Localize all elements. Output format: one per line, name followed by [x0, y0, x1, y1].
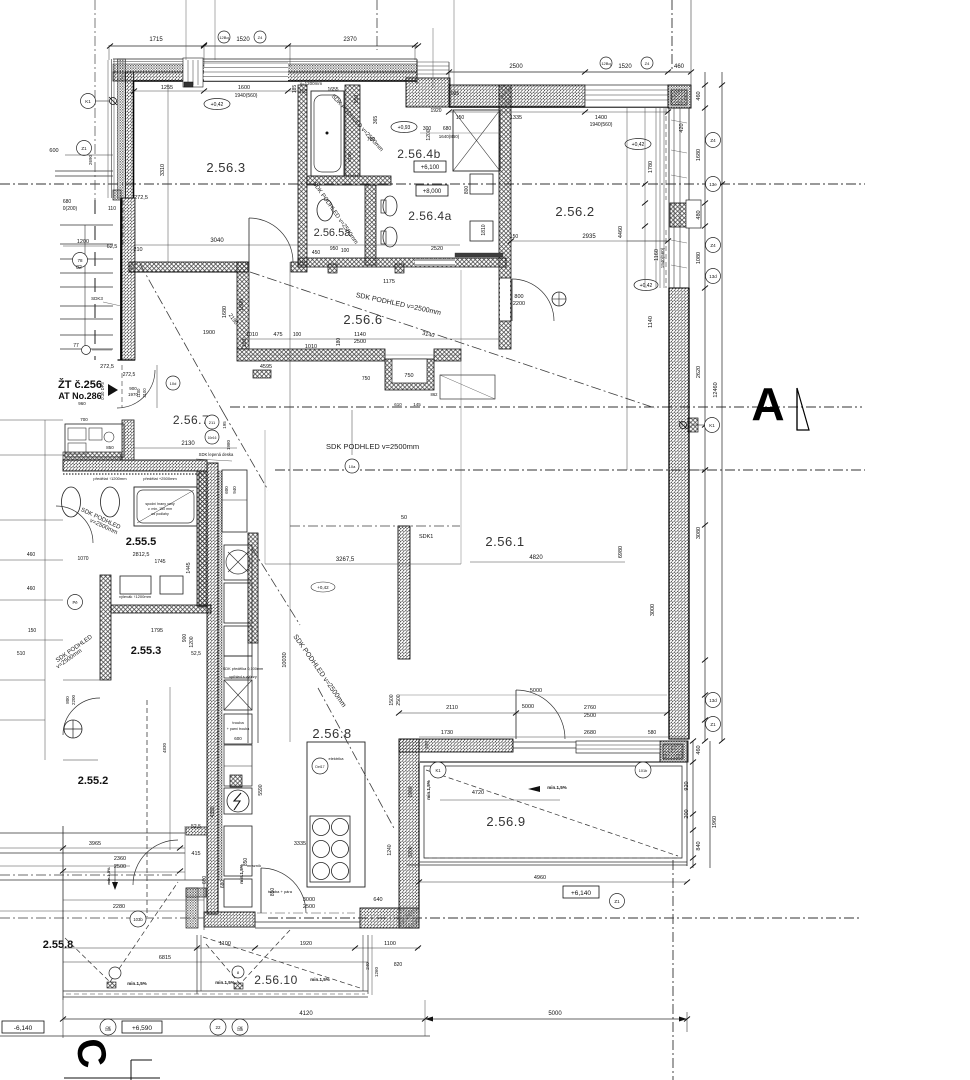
svg-text:2.56.9: 2.56.9 [486, 814, 525, 829]
left exterior wall lower part [122, 198, 135, 360]
svg-text:1010: 1010 [305, 344, 317, 350]
svg-text:#100: #100 [347, 151, 352, 162]
small hatch square 2 [395, 264, 404, 273]
terrace 2.56.10 outline [196, 935, 198, 994]
svg-text:2100: 2100 [142, 388, 147, 398]
top dimension line [109, 45, 418, 47]
svg-text:SDK3: SDK3 [91, 296, 103, 301]
svg-text:K1: K1 [709, 423, 715, 428]
kitchen mid hatch square [230, 775, 242, 787]
svg-text:610: 610 [394, 402, 402, 407]
terrace top wall window band [576, 741, 660, 753]
svg-text:22: 22 [215, 1025, 221, 1030]
svg-text:3965: 3965 [89, 841, 101, 847]
washbasin 2.55.5 no2 [101, 487, 120, 517]
living room vertical dim [626, 107, 628, 470]
svg-text:ŽT č.256: ŽT č.256 [58, 378, 102, 391]
svg-text:10e16: 10e16 [208, 436, 217, 440]
svg-text:min.1,5%: min.1,5% [106, 867, 111, 885]
axis line vertical x95 top [94, 0, 96, 200]
svg-text:0(200): 0(200) [63, 206, 78, 212]
svg-text:460: 460 [27, 552, 36, 558]
terrace 2.55.8 dashed diagonals [65, 938, 110, 982]
svg-text:50: 50 [401, 515, 407, 521]
svg-text:3000: 3000 [650, 604, 656, 616]
svg-text:1520: 1520 [236, 37, 250, 43]
right wall glazing upper [668, 108, 670, 288]
svg-text:200: 200 [684, 809, 690, 818]
stair treads [55, 170, 113, 172]
svg-text:2110: 2110 [446, 705, 458, 711]
door entry 2.56.7 [117, 370, 155, 408]
svg-text:900: 900 [182, 634, 188, 643]
svg-text:5000: 5000 [522, 704, 534, 710]
kitchen oven [224, 714, 252, 744]
window top right [585, 85, 668, 107]
svg-text:1900: 1900 [203, 330, 215, 336]
svg-text:950: 950 [330, 246, 339, 252]
svg-text:od podlahy: od podlahy [151, 512, 169, 516]
svg-text:101b: 101b [639, 769, 647, 773]
2.56.1 right dim ticks [702, 468, 708, 473]
svg-text:1140: 1140 [648, 316, 654, 328]
ceiling diagonal 2.56.7 [140, 264, 223, 412]
terrace 2.56.10 right dims [371, 935, 373, 995]
svg-text:1070: 1070 [77, 556, 88, 562]
kitchen corridor vertical dim [289, 262, 291, 742]
oval +0,42 top right [625, 139, 651, 150]
svg-text:trouba: trouba [232, 720, 244, 725]
svg-text:3267,5: 3267,5 [336, 557, 355, 563]
svg-text:100: 100 [293, 332, 302, 338]
svg-text:480: 480 [696, 210, 702, 219]
bathroom mid wall [345, 85, 360, 176]
sliding door opening bathroom [415, 259, 455, 266]
hatch pier right wall mid block [688, 418, 698, 432]
svg-text:Z4: Z4 [710, 243, 716, 248]
svg-text:680: 680 [63, 199, 72, 205]
svg-text:2500: 2500 [354, 339, 366, 345]
svg-text:272,5: 272,5 [123, 372, 136, 378]
right dimension chain inner [704, 72, 706, 741]
svg-text:6815: 6815 [159, 955, 171, 961]
svg-text:1240: 1240 [387, 844, 393, 855]
wall 2.55.3 top band [111, 605, 211, 613]
svg-text:Z1: Z1 [614, 899, 620, 904]
svg-text:0.30 DP3: 0.30 DP3 [100, 382, 105, 400]
svg-text:180: 180 [336, 338, 342, 347]
door hall to living room 2.56.1 [512, 279, 554, 321]
svg-text:2680: 2680 [584, 730, 596, 736]
svg-text:K1: K1 [435, 768, 441, 773]
svg-text:2500: 2500 [114, 864, 126, 870]
wall below room 2.56.3 [129, 262, 248, 272]
niche below hall [385, 359, 434, 390]
wall left of hall 2.56.6 [237, 262, 249, 349]
svg-text:předělat +2500mm: předělat +2500mm [143, 476, 177, 481]
svg-text:950: 950 [354, 95, 360, 104]
svg-text:SDK PODHLED v=2500mm: SDK PODHLED v=2500mm [326, 442, 419, 451]
svg-text:1940(560): 1940(560) [590, 122, 613, 128]
svg-text:1980: 1980 [226, 439, 231, 450]
bath top dims row [420, 132, 500, 134]
dim 2130 corridor [134, 447, 237, 449]
svg-text:+0,42: +0,42 [640, 283, 653, 289]
svg-text:SDK1: SDK1 [419, 534, 433, 540]
svg-text:4820: 4820 [529, 555, 543, 561]
svg-text:1745: 1745 [154, 559, 165, 565]
svg-text:A: A [751, 378, 784, 430]
axis vertical x147 bottom-left [146, 700, 148, 917]
glazing marks right wall [671, 120, 687, 123]
svg-text:460: 460 [27, 586, 36, 592]
svg-text:+6,590: +6,590 [132, 1025, 152, 1032]
door 2.56.3 to hall [249, 218, 293, 262]
svg-text:spodní hrany vaný: spodní hrany vaný [145, 502, 175, 506]
dim 4830 vertical [169, 687, 171, 850]
svg-text:2.55.3: 2.55.3 [131, 645, 162, 657]
K1 circle right wall [705, 418, 720, 433]
bathroom block left wall [298, 85, 307, 265]
svg-text:1960: 1960 [408, 786, 414, 797]
2.56.7 door lines [121, 365, 123, 408]
svg-text:min.1,5%: min.1,5% [310, 977, 330, 982]
svg-text:960: 960 [78, 401, 86, 406]
svg-text:3000: 3000 [303, 897, 315, 903]
svg-text:850: 850 [270, 888, 276, 897]
right wall inner dim chain [644, 107, 646, 288]
kitchen boxes mid [224, 583, 252, 623]
svg-text:1680: 1680 [222, 306, 228, 318]
svg-text:min.1,5%: min.1,5% [127, 981, 147, 986]
svg-text:1940(560): 1940(560) [235, 93, 258, 99]
washbasin 2.56.5a [317, 199, 333, 221]
svg-text:460: 460 [674, 64, 685, 70]
svg-text:3040: 3040 [210, 238, 224, 244]
wall stub above 2.55 band [122, 420, 134, 460]
axis vertical x672 top [671, 0, 673, 72]
right wall pier [670, 203, 688, 227]
door kitchen to terrace 2.56.10 [261, 868, 306, 913]
svg-text:1445: 1445 [186, 562, 192, 573]
svg-text:2.56.1: 2.56.1 [485, 534, 524, 549]
left wall joint block [113, 190, 121, 200]
level boxes bottom [2, 1021, 44, 1033]
dim row 2.56.3 bottom [134, 244, 460, 246]
svg-text:52,5: 52,5 [191, 824, 201, 830]
svg-text:1640(860): 1640(860) [439, 134, 460, 139]
svg-text:AT No.286: AT No.286 [58, 391, 101, 401]
svg-text:12460: 12460 [713, 382, 719, 397]
svg-text:510: 510 [17, 651, 26, 657]
svg-text:2812,5: 2812,5 [133, 552, 150, 558]
svg-text:850: 850 [106, 445, 114, 450]
svg-text:2520: 2520 [431, 246, 443, 252]
svg-text:+6,140: +6,140 [571, 890, 591, 897]
svg-text:1255: 1255 [161, 85, 173, 91]
svg-text:4120: 4120 [299, 1011, 313, 1017]
terrace 2.56.9 top wall [399, 739, 513, 752]
drain 2 [234, 983, 243, 989]
axis line horizontal y918 [268, 917, 862, 919]
wall between hall and living room [499, 85, 511, 349]
svg-text:13d: 13d [709, 698, 717, 703]
svg-text:1100: 1100 [384, 941, 396, 947]
left exterior wall [118, 59, 126, 198]
svg-text:210: 210 [133, 247, 142, 253]
svg-text:min.1,5%: min.1,5% [426, 780, 431, 800]
svg-text:1500: 1500 [389, 694, 395, 705]
svg-text:Pē: Pē [72, 600, 78, 605]
terrace 2.56.9 floor outline [424, 766, 682, 858]
svg-text:2760: 2760 [584, 705, 596, 711]
dim 6815 [63, 961, 368, 963]
svg-text:1200: 1200 [189, 636, 195, 647]
svg-text:2.56.4b: 2.56.4b [397, 147, 441, 161]
right dimension chain outer [721, 72, 723, 741]
svg-text:13e: 13e [709, 182, 717, 187]
svg-text:SDK lepená deska: SDK lepená deska [199, 452, 234, 457]
axis line horizontal y407 [230, 406, 862, 408]
svg-text:4595: 4595 [260, 364, 272, 370]
right wall solid lower [669, 288, 689, 739]
svg-text:1960: 1960 [712, 816, 718, 828]
svg-text:420: 420 [679, 123, 685, 132]
svg-text:10030: 10030 [282, 652, 288, 667]
svg-text:680: 680 [220, 880, 226, 889]
top-right corner block [668, 85, 691, 108]
svg-text:2500: 2500 [303, 904, 315, 910]
kitchen island [307, 742, 365, 887]
tick row under hall wall [240, 354, 460, 356]
living room bottom dims [399, 694, 667, 696]
svg-text:145: 145 [413, 402, 421, 407]
long line y1036 [0, 1035, 430, 1037]
drain 1 [107, 982, 116, 988]
svg-text:12Bq: 12Bq [219, 35, 228, 40]
kitchen terrace door threshold [255, 921, 360, 923]
level oval near kitchen [311, 582, 335, 592]
svg-text:1080: 1080 [696, 252, 702, 264]
entry niche hatch [253, 370, 271, 378]
svg-text:K1: K1 [85, 99, 91, 104]
top wall right band [449, 85, 585, 107]
svg-text:800: 800 [514, 294, 523, 300]
svg-text:185: 185 [292, 85, 298, 94]
svg-text:750: 750 [404, 373, 413, 379]
svg-text:935: 935 [451, 91, 460, 97]
svg-text:10d: 10d [170, 381, 177, 386]
living room dims [265, 563, 461, 565]
svg-text:1730: 1730 [441, 730, 453, 736]
svg-text:mrazník: mrazník [247, 863, 261, 868]
svg-text:5000: 5000 [530, 688, 542, 694]
svg-text:12Bq: 12Bq [601, 61, 610, 66]
svg-text:800: 800 [464, 186, 470, 195]
svg-text:4720: 4720 [472, 790, 484, 796]
wall 2.55.5 right [197, 471, 207, 606]
dim 4120/5000 bottom [63, 1018, 687, 1020]
svg-text:6980: 6980 [618, 546, 624, 558]
lines building 2.55 bottom-left [0, 832, 185, 834]
svg-text:1175: 1175 [383, 279, 395, 285]
min arrow down left [114, 865, 116, 888]
svg-text:1780: 1780 [648, 161, 654, 173]
vertical line x687 bottom [686, 1012, 688, 1032]
svg-text:2.56.4a: 2.56.4a [408, 209, 452, 223]
top exterior wall band room 2.56.3 [113, 58, 417, 60]
svg-text:1520: 1520 [618, 64, 632, 70]
washer 2.55.3 [120, 576, 151, 594]
svg-text:862: 862 [431, 392, 439, 397]
svg-text:1500: 1500 [239, 299, 245, 311]
svg-text:+ parní trouba: + parní trouba [227, 727, 249, 731]
right wall bottom corner block [660, 741, 688, 762]
svg-text:2.55.2: 2.55.2 [78, 775, 109, 787]
right chain lower (terrace) [692, 741, 694, 868]
bathroom block bottom wall [298, 258, 506, 267]
dim 3310 vertical [167, 84, 169, 262]
svg-text:3335: 3335 [294, 841, 306, 847]
bottom edge line [64, 1077, 160, 1079]
top wall inner dim row 2.56.3 [132, 90, 303, 92]
svg-text:920: 920 [684, 781, 690, 790]
corridor wall checker strip [218, 471, 222, 880]
wall 2.55.3 left [100, 575, 111, 680]
toilet 2 [383, 227, 397, 247]
sliding door track bar [455, 253, 503, 257]
svg-text:5000: 5000 [548, 1011, 562, 1017]
svg-text:800: 800 [65, 696, 70, 704]
svg-text:5590: 5590 [258, 784, 264, 795]
svg-text:vpřhled s výřezy: vpřhled s výřezy [229, 675, 257, 679]
+6,100 box [414, 161, 446, 172]
svg-text:2.56.3: 2.56.3 [206, 160, 245, 175]
axis line short y526 [290, 525, 460, 527]
+8,000 box [416, 185, 448, 196]
freestanding wall SDK1 in living room [398, 526, 410, 659]
svg-text:150: 150 [510, 234, 519, 240]
door arc small left bottom [63, 698, 100, 735]
svg-text:580: 580 [648, 730, 657, 736]
terrace door opening [513, 741, 576, 743]
svg-text:3310: 3310 [160, 164, 166, 176]
wall stub at bathroom corner [291, 262, 307, 272]
svg-text:2500: 2500 [509, 64, 523, 70]
kitchenette KVT landing [65, 424, 124, 457]
svg-text:2620: 2620 [696, 366, 702, 378]
stairwell verticals top [185, 0, 187, 60]
svg-text:2360: 2360 [114, 856, 126, 862]
svg-text:475: 475 [273, 332, 282, 338]
2.56.2 bottom dim [511, 240, 668, 242]
kitchen hob circles [313, 819, 330, 836]
svg-text:3200: 3200 [408, 846, 414, 857]
svg-text:272,5: 272,5 [100, 364, 114, 370]
terrace left wall end block [399, 908, 419, 928]
svg-text:1140: 1140 [354, 332, 366, 338]
svg-text:4390: 4390 [210, 806, 216, 817]
svg-text:1715: 1715 [149, 37, 163, 43]
svg-text:1200: 1200 [77, 239, 89, 245]
svg-text:10a: 10a [349, 464, 356, 469]
2.55.5 right wall strip [199, 471, 207, 607]
wall band 2.55 top [63, 460, 207, 471]
ceiling diagonal kitchen [252, 548, 300, 625]
svg-text:640: 640 [373, 897, 382, 903]
window sill lines right wall 2.56.2 [655, 108, 657, 288]
axis line horizontal y184 [0, 183, 865, 185]
washbasin 2.55.5 no1 [62, 487, 81, 517]
svg-text:78: 78 [77, 258, 83, 263]
kitchen counter boxes [222, 470, 247, 532]
dryer 2.55.3 [160, 576, 183, 594]
svg-text:Z4: Z4 [710, 138, 716, 143]
svg-text:2.55.5: 2.55.5 [126, 536, 157, 548]
top-right dimension line [449, 71, 691, 73]
svg-text:460: 460 [696, 745, 702, 754]
vertical dim line x63 bottom [62, 826, 64, 1038]
svg-text:2200: 2200 [71, 694, 76, 705]
svg-text:2.55.8: 2.55.8 [43, 939, 74, 951]
left wall outer dim verticals [107, 60, 109, 198]
window jamb dotted 2.56.3 left wall [122, 200, 124, 245]
checker L corner bottom-left [186, 888, 198, 928]
door arc bottom-left building [133, 840, 178, 885]
svg-text:272,5: 272,5 [134, 195, 148, 201]
svg-text:10b: 10b [237, 1028, 243, 1032]
left top circles [81, 94, 96, 109]
svg-text:450: 450 [312, 250, 321, 256]
top wall step block [406, 78, 450, 107]
svg-text:415: 415 [191, 851, 200, 857]
svg-text:min.1,5%: min.1,5% [547, 785, 567, 790]
kitchen bottom wall [204, 912, 255, 927]
top wall right inner dim row [449, 111, 668, 113]
+0,42 oval living [634, 280, 658, 291]
kitchen appliance circle [224, 788, 252, 814]
terrace 2.55.8 edge lines [63, 990, 368, 992]
svg-text:840: 840 [696, 841, 702, 850]
terrace inner dim row [419, 736, 687, 738]
terrace diagonal slope line [426, 770, 678, 856]
hall bottom wall right part [434, 349, 461, 361]
window centerline right wall [665, 108, 667, 200]
svg-text:300: 300 [423, 126, 432, 132]
axis vertical x377 top [376, 0, 378, 50]
svg-text:680: 680 [443, 126, 452, 132]
svg-text:700: 700 [367, 137, 376, 143]
left lower room lines [63, 679, 100, 681]
svg-text:2370: 2370 [343, 37, 357, 43]
svg-text:1100: 1100 [219, 941, 231, 947]
svg-text:min.1,5%: min.1,5% [215, 980, 235, 985]
svg-text:180: 180 [242, 339, 248, 348]
kitchen hob symbol [224, 680, 252, 710]
svg-text:3080: 3080 [696, 527, 702, 539]
hall dim row [240, 338, 500, 340]
svg-text:+0,42: +0,42 [317, 585, 329, 590]
svg-text:600: 600 [49, 148, 58, 154]
svg-text:1920: 1920 [300, 941, 312, 947]
svg-text:110: 110 [108, 206, 116, 212]
kitchen bottom right corner block [360, 908, 399, 928]
door recess in top wall [183, 58, 203, 87]
sill detail top step [416, 60, 418, 84]
ceiling diagonal 2.56.6 [250, 272, 655, 408]
svg-text:v=1200mm: v=1200mm [300, 81, 323, 86]
door 2.55.5 [56, 506, 93, 543]
